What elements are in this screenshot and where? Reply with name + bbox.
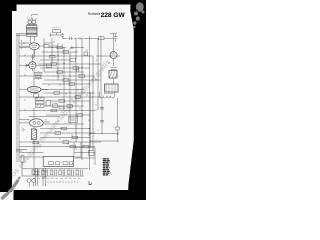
vertical wire x58	[57, 43, 59, 80]
wire T1-L2	[99, 92, 114, 96]
vertical wire x89	[89, 36, 92, 170]
wire row y152 left	[19, 152, 44, 154]
resistor R10	[63, 79, 69, 82]
speaker S1 magnet	[27, 17, 38, 24]
vertical wire x81b	[80, 142, 82, 157]
stamp text block	[103, 158, 111, 175]
vertical wire x93	[92, 56, 94, 150]
wire row y116.6	[29, 116, 60, 118]
top HT rail right	[84, 37, 114, 39]
capacitor stack under V2	[34, 71, 43, 80]
wire row y133	[40, 132, 95, 134]
wire stub y33	[110, 33, 117, 38]
wire L1 down	[33, 140, 35, 177]
resistor R28	[84, 52, 88, 56]
resistor R26	[33, 141, 39, 144]
wire row y47.5	[19, 47, 84, 49]
resistor R24	[89, 151, 95, 156]
wire row y124	[44, 123, 84, 125]
capacitor C8	[72, 46, 74, 49]
wire V2 pins	[19, 54, 52, 71]
bottom bus y168.8	[26, 168, 88, 170]
wire row y158 right	[75, 148, 96, 165]
tone box B1	[53, 30, 61, 33]
vertical wire x70	[69, 52, 71, 124]
resistor R15	[67, 105, 73, 108]
black border: bottom band	[14, 190, 147, 200]
resistor R9	[79, 75, 85, 78]
wire row y146.5	[19, 146, 95, 148]
wire row y76	[19, 75, 95, 77]
wire row y97	[19, 96, 101, 98]
bottom bus y176	[26, 175, 84, 177]
bottom labels row	[33, 177, 81, 179]
black border: top band	[0, 0, 146, 5]
wire row y147.8 right	[70, 147, 95, 149]
ballast marks	[111, 68, 117, 70]
resistor R4	[63, 51, 69, 54]
svg-text:Schaub: Schaub	[88, 12, 100, 16]
mains switch S2	[35, 168, 40, 186]
vertical wire x44	[43, 38, 45, 72]
IF transformer cluster	[36, 98, 51, 108]
svg-text:228 GW: 228 GW	[101, 12, 126, 19]
heavy dash pair	[16, 150, 27, 152]
resistor R7	[73, 67, 79, 70]
left bus rail	[17, 34, 19, 162]
wire tone net	[52, 33, 64, 39]
wire row y157 left	[19, 156, 82, 158]
resistor R3	[57, 46, 63, 49]
tube V5 rectifier	[110, 52, 117, 59]
gray blob top-right	[133, 2, 144, 28]
resistor R19	[55, 132, 61, 135]
wire row y64	[38, 63, 101, 65]
wire row y106	[44, 105, 84, 107]
wire V1 out	[49, 45, 58, 47]
resistor R29	[116, 127, 119, 130]
wire row y110.5	[19, 110, 95, 112]
resistor R5	[70, 59, 76, 62]
resistor R27	[83, 145, 89, 148]
label over choke	[104, 92, 113, 94]
wire row y119.5	[19, 119, 30, 121]
tick x80	[79, 37, 81, 40]
tiny label smudges	[24, 42, 110, 149]
capacitor C5	[100, 120, 104, 122]
resistor R8	[57, 71, 63, 74]
wire row y115	[46, 114, 90, 116]
vertical wire x64	[63, 48, 65, 111]
capacitor C3	[69, 117, 78, 123]
tube V3 mixer	[28, 86, 41, 92]
wire row y56	[19, 55, 120, 57]
tube V2	[29, 62, 36, 69]
wire row y141 right	[90, 140, 118, 143]
transformer T1 box	[105, 84, 119, 92]
resistor R17	[77, 114, 83, 117]
wire row y128.5	[40, 128, 90, 130]
top HT rail	[65, 37, 85, 39]
vertical wire x82	[81, 38, 83, 160]
wire row y152.5 right	[75, 152, 96, 154]
wire row y133.5 right	[90, 132, 118, 135]
wire V4 pins	[19, 122, 50, 131]
wire V1 pins	[19, 42, 44, 56]
wire row y80	[44, 79, 101, 81]
wire row y89.5	[41, 89, 84, 91]
speaker output transformer (laminated box)	[27, 26, 38, 37]
resistor R3b	[50, 55, 56, 58]
choke L2 loops	[99, 96, 114, 98]
label mark b	[89, 181, 91, 184]
tube chain vertical x34	[34, 50, 36, 119]
resistor R2	[99, 37, 105, 40]
wire row y101	[51, 100, 91, 102]
resistor R6	[51, 63, 57, 66]
capacitor C1b	[70, 37, 72, 40]
resistor R18	[61, 127, 67, 130]
wire row y60	[40, 59, 70, 61]
watermark diagonal text	[0, 57, 112, 197]
capacitor C9	[77, 67, 79, 72]
wire row y72	[44, 71, 84, 73]
black border: left bar	[0, 0, 12, 192]
vertical wire x98	[97, 38, 99, 110]
resistor R11	[69, 83, 75, 86]
gray streak bottom-left	[3, 178, 20, 198]
wire row y84	[42, 83, 90, 85]
resistor R20	[72, 136, 78, 139]
capacitor C4	[100, 107, 104, 109]
wire speaker-transformer-tube	[30, 15, 38, 43]
resistor R1a	[44, 45, 49, 48]
dial scale box	[43, 156, 73, 166]
plug P1	[27, 179, 36, 187]
paper background	[0, 0, 146, 200]
vertical wire x117	[116, 98, 118, 141]
rail terminal bar	[16, 34, 26, 35]
black border: left top block	[0, 0, 17, 11]
resistor R30	[46, 64, 52, 67]
capacitor C6	[53, 104, 58, 108]
rectifier branch vertical	[113, 38, 115, 84]
wire row y93	[44, 92, 95, 94]
vertical wire x52	[51, 38, 53, 64]
tube V1 output	[29, 43, 39, 50]
resistor R21	[63, 141, 69, 144]
dashed arc over B1	[52, 27, 61, 28]
vertical wire x101	[100, 36, 102, 98]
tube V4	[30, 119, 44, 127]
vertical wire x74b	[73, 142, 75, 157]
rail dashes	[21, 40, 23, 49]
resistor R14	[59, 100, 65, 103]
wire row y68	[40, 67, 90, 69]
vertical wire x76	[75, 38, 77, 142]
dashed return bus	[47, 181, 78, 183]
bottom components row	[32, 170, 82, 176]
wire row y52	[42, 51, 78, 53]
capacitor C2	[114, 34, 118, 42]
wire row y142	[19, 141, 101, 143]
wire V3 pins	[19, 90, 48, 94]
resistor R12	[54, 92, 60, 95]
capacitor C1	[61, 33, 64, 39]
resistor R22	[70, 145, 76, 148]
coil L1 hatched	[32, 129, 37, 140]
vertical wire x102	[101, 98, 103, 134]
mains cord	[42, 168, 47, 186]
wire row y137.5	[40, 137, 90, 139]
resistor R13	[75, 96, 81, 99]
resistor R31 vertical	[21, 156, 24, 163]
plus mark	[49, 34, 52, 37]
junction dots	[34, 48, 102, 134]
wire row y43	[19, 42, 52, 44]
black border: right column	[128, 5, 146, 191]
box under V3	[34, 94, 39, 98]
ground stub	[22, 162, 26, 176]
resistor R25	[59, 107, 64, 109]
resistor R16	[51, 109, 57, 112]
resistor R23 hatched	[109, 71, 117, 79]
